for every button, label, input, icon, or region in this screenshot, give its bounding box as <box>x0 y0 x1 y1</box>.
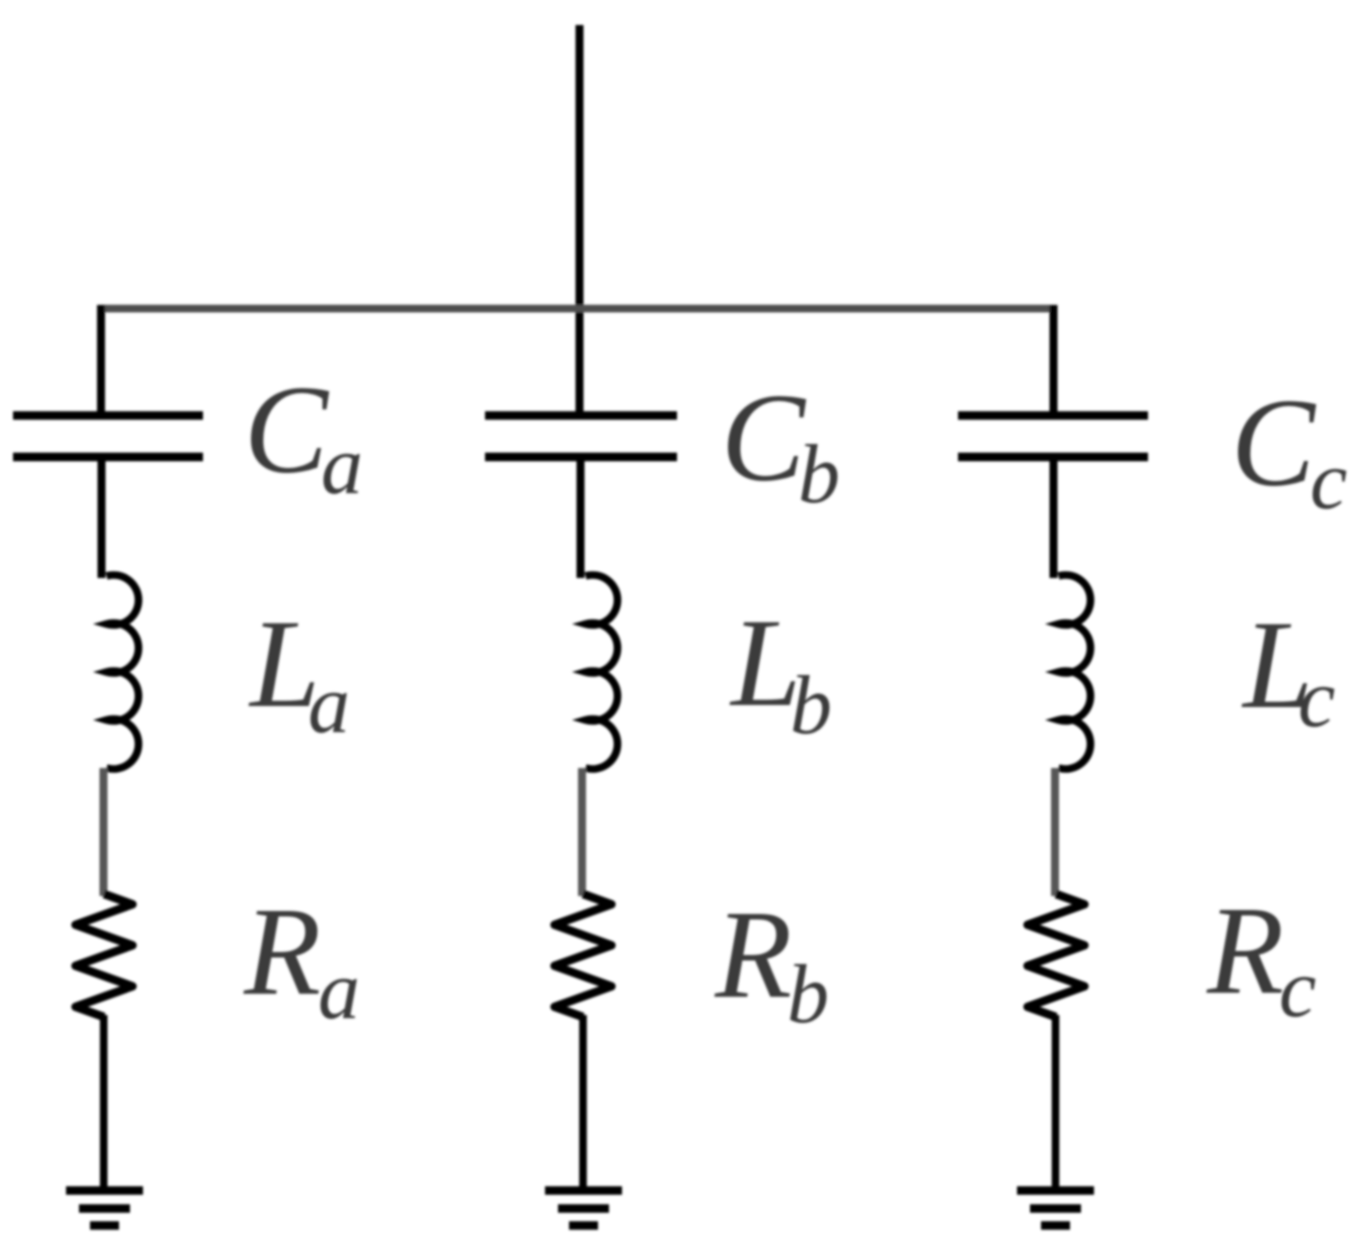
label Rb <box>714 886 829 1041</box>
wire: Cb to Lb <box>577 461 585 578</box>
wire: Cc to Lc <box>1050 461 1058 578</box>
wire: bus to capacitor Cc <box>1050 305 1058 412</box>
svg-text:R: R <box>714 886 792 1025</box>
wire: Ca to La <box>98 461 106 578</box>
label Ra <box>243 883 360 1037</box>
svg-text:c: c <box>1298 652 1335 745</box>
svg-text:C: C <box>244 361 330 500</box>
svg-text:b: b <box>787 948 829 1041</box>
svg-text:a: a <box>318 944 360 1037</box>
label Lb <box>729 594 832 752</box>
capacitor Cb <box>485 416 677 457</box>
svg-text:a: a <box>321 419 363 512</box>
svg-text:R: R <box>243 883 321 1022</box>
wire: horizontal bus (node N) <box>98 305 1058 313</box>
svg-text:b: b <box>798 428 840 521</box>
inductor La <box>107 575 139 769</box>
svg-text:R: R <box>1206 882 1284 1021</box>
ground (branch c) <box>1017 1191 1094 1226</box>
svg-text:b: b <box>790 659 832 752</box>
wire: input feed into node N (vertical, through bus to capacitor Cb) <box>576 25 584 412</box>
label La <box>248 595 350 751</box>
ground (branch b) <box>545 1191 622 1226</box>
svg-text:c: c <box>1310 434 1347 527</box>
inductor Lc <box>1059 575 1091 769</box>
svg-text:c: c <box>1279 942 1316 1035</box>
wire: bus to capacitor Ca <box>97 305 105 412</box>
svg-text:a: a <box>308 658 350 751</box>
resistor Rc <box>1028 894 1085 1017</box>
capacitor Cc <box>958 416 1148 457</box>
wire: Ra to ground <box>100 1015 108 1191</box>
inductor Lb <box>586 575 618 769</box>
label Ca <box>244 361 363 512</box>
wire: Rb to ground <box>579 1015 587 1191</box>
wire: Rc to ground <box>1052 1015 1060 1191</box>
wire: Lb to Rb <box>578 768 586 896</box>
resistor Rb <box>555 894 612 1017</box>
wire: La to Ra <box>100 768 108 896</box>
label Cb <box>721 369 840 521</box>
capacitor Ca <box>13 416 203 457</box>
label Cc <box>1231 374 1347 527</box>
ground (branch a) <box>66 1191 143 1226</box>
svg-text:C: C <box>721 369 807 508</box>
resistor Ra <box>76 894 133 1017</box>
label Lc <box>1241 596 1335 745</box>
svg-text:C: C <box>1231 374 1317 513</box>
wire: Lc to Rc <box>1051 768 1059 896</box>
label Rc <box>1206 882 1316 1035</box>
